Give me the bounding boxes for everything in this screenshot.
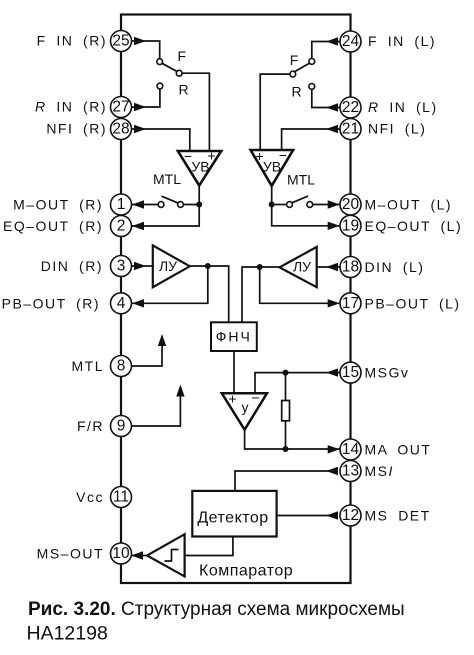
svg-text:MTL: MTL bbox=[153, 171, 181, 187]
svg-text:PB–OUT (R): PB–OUT (R) bbox=[2, 295, 100, 311]
svg-text:MA OUT: MA OUT bbox=[365, 442, 432, 458]
svg-text:НА12198: НА12198 bbox=[27, 623, 108, 645]
pin 1 bbox=[111, 194, 132, 215]
svg-text:NFI (R): NFI (R) bbox=[46, 121, 107, 137]
op-amp UV2 (right channel) bbox=[251, 150, 294, 186]
wire: pin3 to LU1 input bbox=[130, 265, 153, 267]
svg-text:1: 1 bbox=[117, 196, 126, 213]
svg-text:MTL: MTL bbox=[287, 172, 315, 188]
wire: resistor bottom lead to MA line bbox=[285, 421, 287, 449]
hysteresis symbol bbox=[165, 550, 179, 562]
svg-text:10: 10 bbox=[112, 545, 130, 562]
pin 12 bbox=[340, 505, 361, 526]
pin 19 bbox=[340, 215, 361, 236]
svg-text:ФНЧ: ФНЧ bbox=[216, 329, 252, 345]
amplifier LU1 (left channel) bbox=[153, 245, 190, 287]
svg-text:F/R: F/R bbox=[77, 418, 104, 434]
pin 4 bbox=[111, 293, 132, 314]
wire: MTL right contact to junction bbox=[183, 204, 199, 206]
svg-text:28: 28 bbox=[112, 121, 129, 138]
svg-text:22: 22 bbox=[342, 99, 359, 116]
wire: pivot to UV2 plus input bbox=[260, 74, 290, 150]
switch MTL (L) left contact bbox=[287, 202, 293, 208]
wire: MSGv line pin15 to U amp minus input bbox=[255, 373, 340, 394]
svg-text:MSI: MSI bbox=[365, 463, 394, 479]
svg-text:у: у bbox=[242, 399, 249, 415]
svg-text:21: 21 bbox=[342, 121, 359, 138]
svg-text:20: 20 bbox=[342, 196, 360, 213]
svg-text:M–OUT (R): M–OUT (R) bbox=[13, 197, 103, 213]
wire: pin13 MSI to detector top bbox=[235, 471, 338, 491]
svg-text:F IN (R): F IN (R) bbox=[37, 33, 107, 49]
resistor R1 bbox=[282, 401, 290, 421]
switch F/R (R) R contact bbox=[157, 83, 163, 89]
arrow up (F/R control) bbox=[176, 385, 184, 397]
svg-text:19: 19 bbox=[342, 217, 359, 234]
wire: pivot to UV1 plus input bbox=[182, 73, 209, 151]
pin 20 bbox=[340, 194, 361, 215]
switch MTL (R) right contact bbox=[178, 202, 184, 208]
svg-text:УВ: УВ bbox=[263, 159, 281, 175]
svg-text:15: 15 bbox=[342, 364, 359, 381]
svg-text:NFI (L): NFI (L) bbox=[368, 121, 426, 137]
arrow from pin 12 bbox=[326, 511, 338, 519]
wire: MTL right contact to pin 20 bbox=[313, 204, 340, 206]
wire: UV2 output down to EQ row bbox=[272, 186, 340, 226]
svg-text:14: 14 bbox=[342, 441, 360, 458]
svg-text:−: − bbox=[251, 390, 259, 406]
wire: pin9 F/R up arrow bbox=[132, 388, 181, 427]
svg-text:11: 11 bbox=[113, 489, 129, 506]
pin 17 bbox=[340, 293, 361, 314]
arrow into pin 14 bbox=[328, 445, 340, 453]
switch F/R (R) blade bbox=[162, 63, 177, 71]
wire: FNC output down to U amp plus input bbox=[233, 351, 235, 393]
node: junction LU2 out bbox=[257, 264, 263, 270]
arrow from pin 27 bbox=[134, 103, 146, 111]
svg-text:F IN (L): F IN (L) bbox=[368, 33, 436, 49]
wire: junction down to pin 17 bbox=[260, 267, 340, 303]
svg-text:F: F bbox=[178, 48, 187, 64]
svg-text:R: R bbox=[291, 84, 301, 100]
svg-text:12: 12 bbox=[342, 507, 359, 524]
node: junction MA line bbox=[283, 446, 289, 452]
pin 15 bbox=[340, 362, 361, 383]
switch MTL (R) blade bbox=[162, 196, 178, 203]
block FNC low-pass filter bbox=[211, 322, 257, 351]
pin 25 bbox=[111, 31, 132, 52]
svg-text:DIN (L): DIN (L) bbox=[365, 259, 425, 275]
pin 11 bbox=[111, 487, 132, 508]
svg-text:EQ–OUT (L): EQ–OUT (L) bbox=[365, 218, 463, 234]
arrow into pin 1 bbox=[132, 200, 144, 208]
svg-text:MSGv: MSGv bbox=[365, 365, 410, 381]
svg-text:Vcc: Vcc bbox=[76, 489, 104, 505]
svg-text:3: 3 bbox=[117, 258, 126, 275]
block detector bbox=[192, 491, 276, 537]
svg-text:+: + bbox=[228, 391, 236, 407]
wire: comparator output to pin 10 bbox=[132, 555, 148, 557]
arrow up (MTL control) bbox=[158, 334, 166, 346]
pin 21 bbox=[340, 119, 361, 140]
wire: pin8 MTL up arrow bbox=[132, 337, 163, 366]
svg-text:R IN (L): R IN (L) bbox=[368, 99, 438, 115]
svg-text:2: 2 bbox=[117, 218, 126, 235]
switch MTL (L) blade bbox=[292, 196, 308, 203]
pin 9 bbox=[111, 416, 132, 437]
pin 14 bbox=[340, 439, 361, 460]
switch F/R (R) pivot bbox=[176, 70, 182, 76]
arrow from pin 15 bbox=[326, 368, 338, 376]
pin 10 bbox=[111, 543, 132, 564]
switch MTL (L) right contact bbox=[307, 202, 313, 208]
arrow from pin 18 bbox=[326, 263, 338, 271]
wire: junction down to pin 4 bbox=[132, 266, 208, 303]
wire: LU2 output to FNC bbox=[242, 267, 280, 322]
svg-text:DIN (R): DIN (R) bbox=[41, 258, 103, 274]
arrow from pin 13 bbox=[326, 467, 338, 475]
pin 2 bbox=[111, 216, 132, 237]
svg-text:Рис. 3.20. Структурная схема м: Рис. 3.20. Структурная схема микросхемы bbox=[28, 599, 405, 620]
svg-text:F: F bbox=[290, 52, 299, 68]
pin 27 bbox=[111, 97, 132, 118]
svg-text:MS–OUT: MS–OUT bbox=[37, 546, 104, 562]
node: junction MTL (L) bbox=[269, 202, 275, 208]
svg-text:ЛУ: ЛУ bbox=[293, 259, 311, 275]
svg-text:18: 18 bbox=[342, 259, 359, 276]
switch F/R (L) pivot bbox=[290, 71, 296, 77]
pin 28 bbox=[111, 119, 132, 140]
arrow into pin 19 bbox=[328, 222, 340, 230]
arrow from pin 22 bbox=[326, 103, 338, 111]
switch MTL (R) left contact bbox=[158, 202, 164, 208]
pin 24 bbox=[340, 31, 361, 52]
wire: pin18 to LU2 input bbox=[317, 266, 340, 268]
comparator bbox=[147, 534, 185, 576]
wire: resistor top lead bbox=[285, 373, 287, 401]
svg-text:R IN (R): R IN (R) bbox=[35, 99, 107, 115]
svg-text:PB–OUT (L): PB–OUT (L) bbox=[365, 295, 461, 311]
svg-text:MS DET: MS DET bbox=[365, 508, 431, 524]
op-amp UV1 (left channel) bbox=[178, 151, 221, 186]
wire: U output to pin 14 bbox=[245, 430, 340, 449]
arrow into pin 4 bbox=[132, 299, 144, 307]
IC outline bbox=[121, 15, 351, 584]
svg-text:R: R bbox=[179, 82, 189, 98]
switch F/R (L) blade bbox=[295, 63, 310, 72]
wire: pin27 to R contact bbox=[132, 89, 160, 107]
arrow from pin 3 bbox=[134, 262, 146, 270]
pin 22 bbox=[340, 97, 361, 118]
svg-text:EQ–OUT (R): EQ–OUT (R) bbox=[3, 218, 103, 234]
svg-text:9: 9 bbox=[117, 418, 126, 435]
arrow from pin 21 bbox=[326, 125, 338, 133]
switch F/R (R) F contact bbox=[157, 59, 163, 65]
wire: detector bottom to comparator bbox=[185, 537, 233, 556]
wire: pin21 NFI to UV2 minus input bbox=[282, 129, 340, 150]
node: junction LU1 out bbox=[205, 263, 211, 269]
switch F/R (L) F contact bbox=[309, 59, 315, 65]
svg-text:Компаратор: Компаратор bbox=[199, 562, 293, 579]
wire: pin1 to MTL switch bbox=[132, 204, 159, 206]
pin 8 bbox=[111, 356, 132, 377]
arrow into pin 20 bbox=[328, 200, 340, 208]
arrow into pin 17 bbox=[328, 299, 340, 307]
pin 13 bbox=[340, 461, 361, 482]
wire: pin12 MS DET to detector bbox=[277, 515, 338, 517]
arrow from pin 28 bbox=[134, 125, 146, 133]
arrow into pin 2 bbox=[132, 222, 144, 230]
svg-text:24: 24 bbox=[342, 33, 360, 50]
svg-text:17: 17 bbox=[342, 295, 359, 312]
svg-text:27: 27 bbox=[112, 99, 129, 116]
arrow from pin 24 bbox=[326, 37, 338, 45]
svg-text:УВ: УВ bbox=[191, 159, 209, 175]
svg-text:M–OUT (L): M–OUT (L) bbox=[365, 197, 453, 213]
wire: pin28 NFI to UV1 minus input bbox=[132, 129, 190, 151]
svg-text:MTL: MTL bbox=[72, 358, 105, 374]
amplifier LU2 (right channel) bbox=[280, 247, 317, 287]
wire: pin25 to F contact bbox=[132, 41, 160, 59]
pin 3 bbox=[111, 256, 132, 277]
arrow into circuit from pin 25 bbox=[134, 37, 146, 45]
switch F/R (L) R contact bbox=[309, 84, 315, 90]
arrow into pin 10 bbox=[131, 551, 143, 559]
svg-text:8: 8 bbox=[117, 358, 126, 375]
wire: junction to MTL switch (L) bbox=[272, 204, 287, 206]
node: junction MSGv / resistor top bbox=[283, 370, 289, 376]
svg-text:ЛУ: ЛУ bbox=[159, 258, 177, 274]
svg-text:4: 4 bbox=[117, 295, 126, 312]
pin 18 bbox=[340, 257, 361, 278]
wire: LU1 output to FNC bbox=[190, 266, 229, 322]
svg-text:25: 25 bbox=[112, 33, 129, 50]
wire: UV1 output down to EQ row bbox=[132, 186, 200, 226]
node: junction MTL (R) bbox=[196, 202, 202, 208]
wire: pin22 to R contact (L) bbox=[312, 89, 340, 107]
svg-text:Детектор: Детектор bbox=[197, 510, 268, 527]
svg-text:13: 13 bbox=[342, 463, 359, 480]
op-amp U (MS amp) bbox=[222, 393, 267, 429]
wire: pin24 to F contact (L) bbox=[312, 42, 340, 59]
